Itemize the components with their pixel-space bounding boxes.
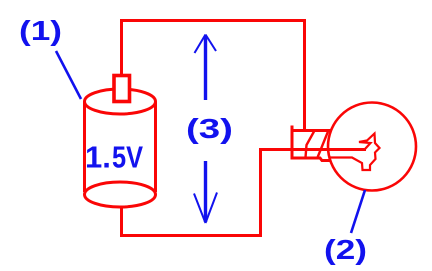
svg-text:1.: 1. (85, 140, 111, 175)
svg-text:(1): (1) (19, 15, 62, 46)
svg-text:(3): (3) (186, 113, 233, 144)
svg-text:5V: 5V (112, 140, 143, 175)
svg-text:(2): (2) (324, 234, 367, 265)
